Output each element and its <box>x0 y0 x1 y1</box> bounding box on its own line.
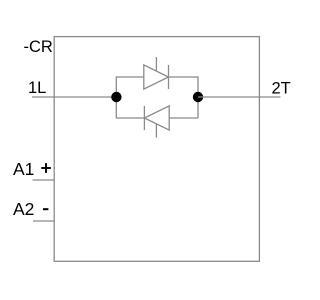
wire 1L input <box>32 96 116 98</box>
node right junction <box>193 92 203 102</box>
svg-text:1L: 1L <box>28 79 46 97</box>
node left junction <box>111 92 121 102</box>
wire A2 stub <box>33 220 54 222</box>
svg-text:A1: A1 <box>13 159 34 179</box>
wire top branch right <box>169 76 199 78</box>
svg-text:-CR: -CR <box>24 38 53 56</box>
svg-text:A2: A2 <box>13 199 34 219</box>
polarity sign + for A1 <box>41 167 51 169</box>
wire bottom branch right <box>169 117 198 119</box>
wire left branch vertical <box>115 76 117 118</box>
wire bottom branch left <box>116 117 144 119</box>
svg-text:2T: 2T <box>272 80 291 98</box>
thyristor V1 cathode bar <box>168 65 170 89</box>
wire right branch vertical <box>197 76 199 118</box>
thyristor V1 triangle <box>144 65 169 89</box>
relay outline box -CR <box>54 37 259 262</box>
thyristor V2 gate <box>155 124 157 138</box>
thyristor V2 cathode bar <box>143 106 145 130</box>
thyristor V1 gate <box>155 57 157 71</box>
thyristor V2 triangle <box>144 106 169 130</box>
wire A1 stub <box>33 179 55 181</box>
wire top branch left <box>116 76 144 78</box>
wire 2T output <box>198 96 281 98</box>
polarity sign - for A2 <box>43 208 48 210</box>
